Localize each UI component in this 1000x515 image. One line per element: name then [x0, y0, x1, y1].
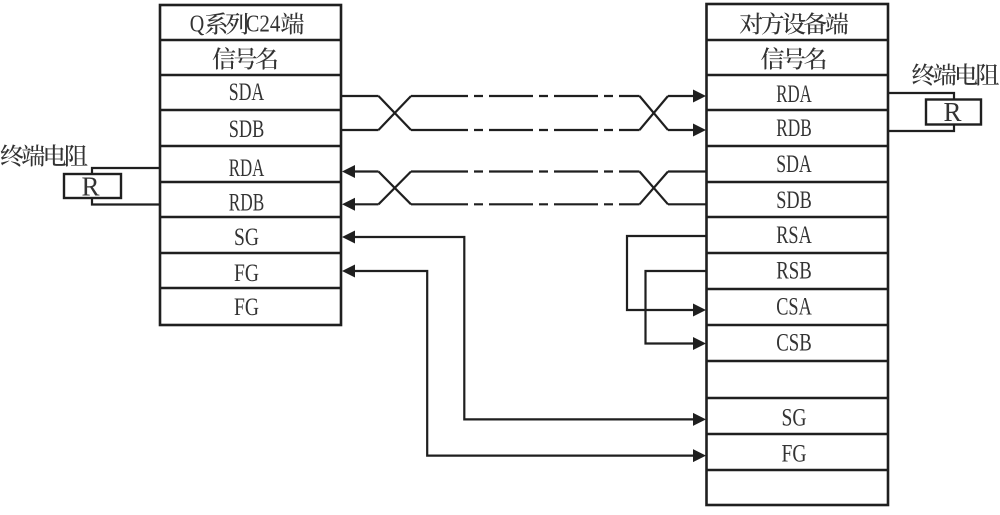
wire: right resistor to RDA row — [888, 93, 954, 100]
wire: left resistor to RDB row — [92, 198, 160, 205]
wire: right resistor to RDB row — [888, 125, 954, 132]
dash-dot run (pair 2) — [411, 170, 640, 172]
wire: right SDA to left RDA, twisted pair upper — [668, 170, 707, 172]
svg-text:SG: SG — [782, 402, 807, 431]
svg-text:SDA: SDA — [229, 77, 265, 106]
arrow into right RDB — [693, 124, 706, 137]
wire: SG to SG — [353, 237, 694, 419]
wire: RSB to CSB loopback — [646, 271, 707, 344]
arrow into CSB — [693, 337, 706, 350]
wire: SDB (left) to RDB (right), twisted pair lower — [341, 129, 379, 131]
svg-text:2: 2 — [259, 11, 270, 37]
arrow into right FG — [693, 449, 706, 462]
svg-text:CSA: CSA — [776, 291, 812, 320]
svg-text:RDA: RDA — [229, 153, 265, 182]
left table header: Q系列C24端 — [190, 11, 304, 37]
right connector table: partner device side — [707, 4, 889, 505]
svg-text:CSB: CSB — [776, 327, 812, 356]
svg-text:C: C — [246, 11, 260, 37]
left connector table: Q-series C24 side — [160, 5, 341, 325]
label: 终端电阻 (right) — [912, 63, 999, 85]
dash-dot run (pair 1) — [411, 95, 640, 97]
wire: RSA to CSA loopback — [627, 236, 707, 310]
resistor R (right) — [926, 100, 981, 125]
twist crossover right (pair 1) — [640, 96, 669, 130]
arrow into right RDA — [693, 90, 706, 103]
svg-text:RSB: RSB — [776, 255, 812, 284]
svg-text:FG: FG — [782, 438, 807, 467]
twist crossover right (pair 2) — [640, 172, 669, 205]
svg-text:R: R — [943, 97, 961, 127]
arrow into left RDA — [342, 165, 355, 178]
twist crossover left (pair 2) — [379, 172, 412, 205]
wire: left resistor to RDA row — [92, 168, 160, 174]
svg-text:RDA: RDA — [776, 79, 812, 108]
label: 终端电阻 (left) — [1, 144, 88, 166]
right table row: 信号名 — [761, 47, 825, 69]
svg-text:FG: FG — [234, 292, 259, 321]
resistor R (left) — [64, 174, 121, 198]
svg-text:4: 4 — [270, 11, 281, 37]
svg-text:FG: FG — [234, 258, 259, 287]
twist crossover left (pair 1) — [379, 96, 412, 130]
svg-text:SG: SG — [234, 222, 259, 251]
arrow into left RDB — [342, 198, 355, 211]
svg-text:SDB: SDB — [229, 114, 265, 143]
left table row: 信号名 — [213, 47, 277, 69]
arrow into right SG — [693, 413, 706, 426]
svg-text:RSA: RSA — [776, 220, 812, 249]
right table header: 对方设备端 — [740, 12, 848, 34]
svg-text:R: R — [81, 171, 99, 201]
svg-text:RDB: RDB — [229, 187, 265, 216]
wire: right SDB to left RDB, twisted pair lower — [668, 203, 707, 205]
arrow into CSA — [693, 304, 706, 317]
arrow into left SG — [342, 231, 355, 244]
wire: SDA (left) to RDA (right), twisted pair upper — [341, 95, 379, 97]
svg-text:Q: Q — [190, 11, 205, 37]
svg-text:SDA: SDA — [776, 149, 812, 178]
wire: FG to FG — [353, 271, 694, 456]
svg-text:SDB: SDB — [776, 185, 812, 214]
svg-text:RDB: RDB — [776, 113, 812, 142]
arrow into left FG — [342, 265, 355, 278]
